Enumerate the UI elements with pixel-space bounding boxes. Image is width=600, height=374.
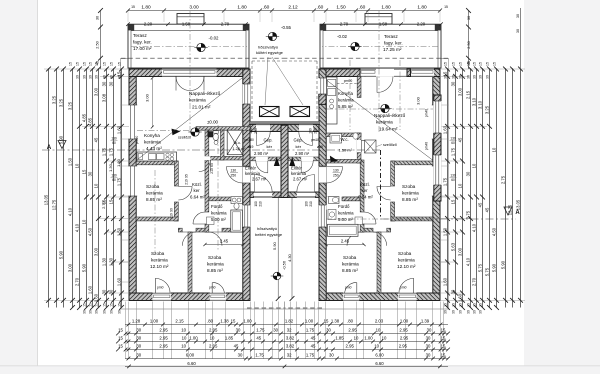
svg-text:2.45: 2.45 xyxy=(341,239,350,244)
svg-text:1.60: 1.60 xyxy=(443,277,448,286)
svg-text:19.64 m²: 19.64 m² xyxy=(379,127,398,132)
svg-text:15: 15 xyxy=(103,62,107,66)
svg-text:A: A xyxy=(47,144,52,151)
svg-text:Gép.: Gép. xyxy=(264,138,273,143)
svg-text:30: 30 xyxy=(118,310,122,314)
svg-text:210: 210 xyxy=(309,201,313,207)
interior wall: bedroom1/bedroom2 divider xyxy=(136,217,178,221)
svg-text:15: 15 xyxy=(118,327,123,332)
svg-text:kerámia: kerámia xyxy=(207,262,224,267)
svg-text:1.80: 1.80 xyxy=(237,4,247,10)
svg-text:3.00: 3.00 xyxy=(189,4,199,10)
svg-text:pm0: pm0 xyxy=(209,286,216,290)
svg-text:210: 210 xyxy=(314,128,318,134)
svg-text:30: 30 xyxy=(466,171,471,176)
svg-text:pm180: pm180 xyxy=(244,138,254,142)
svg-text:45: 45 xyxy=(485,207,490,212)
ventilation shaft with cross xyxy=(227,130,242,155)
svg-text:100: 100 xyxy=(254,201,258,207)
bottom band extension verticals xyxy=(125,302,127,359)
svg-text:1.00: 1.00 xyxy=(243,318,252,323)
svg-text:kerámia: kerámia xyxy=(245,171,261,176)
far top-right corner dims xyxy=(520,8,522,68)
svg-text:45: 45 xyxy=(311,343,316,348)
svg-text:30: 30 xyxy=(89,310,93,314)
svg-text:5.75: 5.75 xyxy=(485,267,490,276)
rear patio level marker xyxy=(273,272,281,280)
right unit W.c. room walls xyxy=(326,133,361,137)
terrace level marker right xyxy=(351,42,359,50)
svg-text:1.75: 1.75 xyxy=(102,147,107,156)
svg-text:3.00: 3.00 xyxy=(416,96,421,105)
svg-text:1.82: 1.82 xyxy=(285,318,294,323)
svg-text:30: 30 xyxy=(473,75,477,79)
svg-text:1.60: 1.60 xyxy=(117,125,122,134)
svg-text:15: 15 xyxy=(118,343,123,348)
svg-text:30: 30 xyxy=(102,289,107,294)
svg-text:5.90: 5.90 xyxy=(501,260,506,269)
svg-text:.60: .60 xyxy=(263,4,270,10)
svg-text:45: 45 xyxy=(478,202,483,207)
svg-text:30: 30 xyxy=(426,352,431,357)
svg-text:3.82: 3.82 xyxy=(286,343,295,348)
party wall full overdraw xyxy=(281,125,288,197)
bathroom fixtures: vanity with basins xyxy=(231,197,242,204)
svg-text:30: 30 xyxy=(109,81,114,86)
svg-text:15: 15 xyxy=(69,62,73,66)
svg-text:Szoba: Szoba xyxy=(402,184,416,189)
svg-text:2.70: 2.70 xyxy=(221,21,230,26)
right unit bathtub horizontal xyxy=(328,224,359,236)
svg-text:beltéri egysége: beltéri egysége xyxy=(255,232,283,237)
svg-text:kerámia: kerámia xyxy=(376,120,393,125)
svg-text:15: 15 xyxy=(486,62,490,66)
svg-text:12.75: 12.75 xyxy=(508,204,513,215)
interior wall: corridor/bathroom vertical xyxy=(205,160,209,212)
svg-text:4.10: 4.10 xyxy=(472,223,477,232)
bedroom3 garden door arc xyxy=(211,283,213,293)
door swing arrow at divider xyxy=(274,157,280,166)
svg-text:2.45: 2.45 xyxy=(220,239,229,244)
svg-text:30: 30 xyxy=(452,75,456,79)
porch dashed lines xyxy=(252,60,285,62)
svg-text:15: 15 xyxy=(109,199,114,204)
svg-text:pm0: pm0 xyxy=(157,286,164,290)
svg-text:30: 30 xyxy=(96,16,100,20)
bathroom fixtures: toilet xyxy=(234,203,239,209)
svg-text:30: 30 xyxy=(479,75,483,79)
svg-text:5.90: 5.90 xyxy=(59,135,64,144)
left unit kitchen counter with sink and hob xyxy=(137,152,177,161)
svg-text:hőszivattyú: hőszivattyú xyxy=(257,226,277,231)
terrace axis dash-dot xyxy=(131,46,247,48)
svg-text:2.95: 2.95 xyxy=(159,343,168,348)
sheet edge lines xyxy=(37,0,39,366)
svg-text:130: 130 xyxy=(111,137,117,141)
svg-text:5.85 m²: 5.85 m² xyxy=(338,104,353,109)
svg-text:ø19: ø19 xyxy=(317,145,323,149)
svg-text:.80: .80 xyxy=(207,318,214,323)
svg-text:32: 32 xyxy=(287,327,292,332)
svg-text:10: 10 xyxy=(354,335,359,340)
svg-text:5.90: 5.90 xyxy=(272,241,277,250)
svg-text:30: 30 xyxy=(103,75,107,79)
door opening: bottom wall bedroom3 xyxy=(210,293,226,301)
svg-text:10: 10 xyxy=(374,343,379,348)
svg-text:pm40: pm40 xyxy=(425,109,429,117)
svg-text:2.70: 2.70 xyxy=(75,277,80,286)
svg-text:1.30: 1.30 xyxy=(108,163,113,172)
svg-text:15: 15 xyxy=(451,199,456,204)
svg-text:15: 15 xyxy=(83,303,87,307)
svg-text:Szoba: Szoba xyxy=(151,251,165,256)
svg-text:15: 15 xyxy=(82,169,87,174)
svg-text:30: 30 xyxy=(273,327,278,332)
svg-text:15: 15 xyxy=(479,303,483,307)
svg-text:1.50: 1.50 xyxy=(117,227,122,236)
right W.c. shower tray xyxy=(330,134,342,144)
svg-text:10: 10 xyxy=(458,183,463,188)
svg-text:45: 45 xyxy=(256,335,261,340)
svg-text:1.60: 1.60 xyxy=(117,277,122,286)
svg-text:15: 15 xyxy=(103,303,107,307)
svg-text:3.25: 3.25 xyxy=(59,98,64,107)
svg-text:15: 15 xyxy=(479,62,483,66)
svg-text:kültéri egysége: kültéri egysége xyxy=(256,50,284,55)
right W.c. toilet xyxy=(353,133,358,139)
svg-text:pm90: pm90 xyxy=(135,136,139,145)
svg-text:60: 60 xyxy=(112,141,116,145)
svg-text:30: 30 xyxy=(83,75,87,79)
right kitchen pm90 dashed line xyxy=(337,83,357,85)
middle block bottom wall with entry door xyxy=(250,192,285,197)
entry-hall to utility door arc xyxy=(256,161,268,173)
outdoor unit leader lines xyxy=(265,57,268,105)
svg-text:10: 10 xyxy=(82,219,87,224)
svg-text:30: 30 xyxy=(426,343,431,348)
svg-text:.60: .60 xyxy=(317,4,324,10)
svg-text:kerámia: kerámia xyxy=(144,140,161,145)
svg-text:15: 15 xyxy=(459,303,463,307)
door opening: entry hall to unit corridor xyxy=(243,166,251,183)
svg-text:2.95: 2.95 xyxy=(159,327,168,332)
svg-text:4.85: 4.85 xyxy=(82,113,87,122)
svg-text:130: 130 xyxy=(111,174,117,178)
living room diagonal xyxy=(138,78,243,160)
svg-text:3.00: 3.00 xyxy=(68,263,73,272)
svg-text:2.95: 2.95 xyxy=(348,327,357,332)
svg-text:15: 15 xyxy=(493,62,497,66)
white drawing sheet xyxy=(38,0,524,366)
svg-text:1.60: 1.60 xyxy=(458,293,463,302)
svg-text:1.39: 1.39 xyxy=(421,318,430,323)
svg-text:2.75: 2.75 xyxy=(466,210,471,219)
svg-text:210: 210 xyxy=(259,201,263,207)
right ventilation shaft with cross xyxy=(365,140,377,153)
svg-text:5.90: 5.90 xyxy=(492,263,497,272)
svg-text:15: 15 xyxy=(118,335,123,340)
svg-text:15: 15 xyxy=(441,335,446,340)
right W.c. door arc (swings into hall) xyxy=(361,140,373,152)
svg-text:6.64 m²: 6.64 m² xyxy=(190,195,205,200)
svg-text:pm0: pm0 xyxy=(400,286,407,290)
svg-text:Terasz: Terasz xyxy=(133,33,147,38)
svg-text:8.85 m²: 8.85 m² xyxy=(146,197,162,202)
svg-text:1.38: 1.38 xyxy=(331,318,340,323)
svg-text:3.10: 3.10 xyxy=(472,97,477,106)
svg-text:5.63: 5.63 xyxy=(451,242,456,251)
svg-text:1.75: 1.75 xyxy=(256,327,265,332)
svg-text:±0.00: ±0.00 xyxy=(207,120,219,125)
svg-text:30: 30 xyxy=(76,75,80,79)
svg-text:Közl.: Közl. xyxy=(360,182,370,187)
svg-text:pm180: pm180 xyxy=(311,138,321,142)
left band top/bottom extension lines xyxy=(44,68,129,70)
svg-text:Szoba: Szoba xyxy=(398,251,412,256)
bedroom1 door arc xyxy=(178,187,192,201)
svg-text:Szoba: Szoba xyxy=(208,255,222,260)
svg-text:1.75: 1.75 xyxy=(451,147,456,156)
svg-text:2.67 m²: 2.67 m² xyxy=(252,177,267,182)
svg-text:kerámia: kerámia xyxy=(146,191,163,196)
svg-text:12.10 m²: 12.10 m² xyxy=(397,264,416,269)
svg-text:ker: ker xyxy=(362,188,369,193)
svg-text:-0.02: -0.02 xyxy=(208,36,219,41)
svg-text:10: 10 xyxy=(472,163,477,168)
svg-text:4.10: 4.10 xyxy=(75,223,80,232)
svg-text:130: 130 xyxy=(450,174,456,178)
chimney / skylight box on terrace xyxy=(177,14,204,25)
svg-text:15: 15 xyxy=(444,62,448,66)
svg-text:30: 30 xyxy=(136,335,141,340)
right unit right-wall windows overdraw xyxy=(434,95,441,201)
svg-text:szellőző: szellőző xyxy=(383,143,397,147)
svg-text:30: 30 xyxy=(329,352,334,357)
svg-text:30: 30 xyxy=(451,289,456,294)
svg-text:30: 30 xyxy=(89,75,93,79)
svg-text:30: 30 xyxy=(88,171,93,176)
svg-text:Gép.: Gép. xyxy=(294,138,303,143)
svg-text:2.12: 2.12 xyxy=(288,4,298,10)
svg-text:1.50: 1.50 xyxy=(182,21,191,26)
window opening: living room left wall xyxy=(128,105,138,139)
svg-text:kerámia: kerámia xyxy=(338,98,354,103)
right unit top wall overdraw (asymmetric layout) xyxy=(326,69,434,77)
svg-text:30: 30 xyxy=(459,310,463,314)
svg-text:4.85: 4.85 xyxy=(88,117,93,126)
svg-text:15: 15 xyxy=(95,303,99,307)
exterior wall: top of unit xyxy=(129,69,250,77)
svg-text:15: 15 xyxy=(444,303,448,307)
svg-text:6.00: 6.00 xyxy=(375,352,384,357)
window opening: porch-side wall xyxy=(243,84,251,104)
roof overhang outline (grey) xyxy=(121,59,285,310)
top-left mini vertical dimension x=100 xyxy=(100,11,102,70)
svg-text:kér: kér xyxy=(267,144,273,149)
svg-text:1.50: 1.50 xyxy=(379,21,388,26)
svg-text:Szoba: Szoba xyxy=(146,184,160,189)
svg-text:100: 100 xyxy=(305,201,309,207)
svg-text:15: 15 xyxy=(452,303,456,307)
svg-text:2.70: 2.70 xyxy=(340,21,349,26)
svg-text:30: 30 xyxy=(95,75,99,79)
section line A-A xyxy=(42,149,381,151)
svg-text:15: 15 xyxy=(89,303,93,307)
svg-text:kerámia: kerámia xyxy=(338,211,354,216)
utility room door arc from porch xyxy=(256,132,270,146)
svg-text:10: 10 xyxy=(75,163,80,168)
svg-text:1.50: 1.50 xyxy=(443,227,448,236)
svg-text:5.00 m²: 5.00 m² xyxy=(338,217,353,222)
svg-text:1.75: 1.75 xyxy=(255,352,264,357)
svg-text:Nappali-étkező: Nappali-étkező xyxy=(189,91,221,96)
black vent arrow near kitchen xyxy=(172,129,181,136)
svg-text:12.10 m²: 12.10 m² xyxy=(150,264,169,269)
svg-text:60: 60 xyxy=(112,178,116,182)
svg-text:pm0: pm0 xyxy=(345,286,352,290)
svg-text:Konyha: Konyha xyxy=(338,91,353,96)
svg-text:30: 30 xyxy=(516,14,520,18)
svg-text:30: 30 xyxy=(136,327,141,332)
interior wall: corridor/bath bottom xyxy=(178,228,182,232)
exterior wall: left side of unit xyxy=(129,69,136,301)
svg-text:30: 30 xyxy=(451,81,456,86)
top dimension line xyxy=(128,10,441,12)
svg-text:15: 15 xyxy=(473,62,477,66)
porch level marker -0.55 xyxy=(268,32,276,40)
svg-text:15: 15 xyxy=(118,62,122,66)
svg-text:30: 30 xyxy=(102,81,107,86)
svg-text:Szoba: Szoba xyxy=(343,255,357,260)
svg-text:ø19: ø19 xyxy=(248,145,254,149)
svg-text:250: 250 xyxy=(333,174,339,178)
terrace outline left unit xyxy=(128,24,249,68)
svg-text:30: 30 xyxy=(238,352,243,357)
svg-text:Fürdő: Fürdő xyxy=(211,204,223,209)
svg-text:1.50 m²: 1.50 m² xyxy=(339,148,353,153)
svg-text:W.c.: W.c. xyxy=(341,137,349,142)
svg-text:15: 15 xyxy=(95,62,99,66)
svg-text:130: 130 xyxy=(231,169,237,173)
svg-text:Előtér: Előtér xyxy=(291,166,303,171)
svg-text:2.95: 2.95 xyxy=(346,343,355,348)
svg-text:250: 250 xyxy=(231,174,237,178)
svg-text:1.75: 1.75 xyxy=(443,177,448,186)
svg-text:W.c.: W.c. xyxy=(234,140,242,145)
rear patio level lines xyxy=(277,198,279,299)
svg-text:kér: kér xyxy=(296,144,302,149)
bathroom fixtures: bathtub xyxy=(231,210,243,232)
svg-text:kerámia: kerámia xyxy=(291,171,307,176)
svg-text:2.90 m²: 2.90 m² xyxy=(295,151,310,156)
svg-text:3.00: 3.00 xyxy=(94,87,99,96)
right living room diagonal xyxy=(327,81,433,161)
svg-text:3.08: 3.08 xyxy=(102,93,107,102)
svg-text:5.90: 5.90 xyxy=(82,263,87,272)
dark cistern block at W.c. xyxy=(208,132,213,138)
svg-text:30: 30 xyxy=(95,310,99,314)
svg-text:4.30: 4.30 xyxy=(287,253,292,262)
svg-text:6.60: 6.60 xyxy=(187,361,196,366)
bedroom2 door arc xyxy=(182,232,196,246)
svg-text:15: 15 xyxy=(459,62,463,66)
svg-text:Előtér: Előtér xyxy=(245,166,257,171)
svg-text:kerámia: kerámia xyxy=(342,262,359,267)
interior wall: bathroom top xyxy=(209,197,243,201)
svg-text:45: 45 xyxy=(311,335,316,340)
svg-text:15: 15 xyxy=(441,327,446,332)
window opening: patio-side wall xyxy=(243,205,251,227)
svg-text:1.30: 1.30 xyxy=(109,257,114,266)
living room level marker xyxy=(191,128,199,136)
svg-text:2.90 m²: 2.90 m² xyxy=(254,151,269,156)
svg-text:30: 30 xyxy=(118,75,122,79)
svg-text:100: 100 xyxy=(249,128,253,134)
right unit kitchen counter along party wall xyxy=(327,77,338,124)
svg-text:kerámia: kerámia xyxy=(189,98,206,103)
svg-text:1.85: 1.85 xyxy=(225,335,234,340)
party wall (half) xyxy=(281,125,285,197)
svg-text:1.85: 1.85 xyxy=(335,335,344,340)
svg-text:130: 130 xyxy=(450,137,456,141)
svg-text:1.75: 1.75 xyxy=(109,147,114,156)
terrace level marker left xyxy=(197,43,205,51)
svg-text:130: 130 xyxy=(333,169,339,173)
exterior wall: bottom of unit xyxy=(129,293,250,301)
svg-text:1.80: 1.80 xyxy=(141,4,151,10)
svg-text:15: 15 xyxy=(89,62,93,66)
svg-text:30: 30 xyxy=(479,310,483,314)
svg-text:fagy. ker.: fagy. ker. xyxy=(384,41,403,46)
svg-text:5.75: 5.75 xyxy=(478,263,483,272)
svg-text:17.25 m²: 17.25 m² xyxy=(383,47,402,52)
svg-text:4.10: 4.10 xyxy=(68,207,73,216)
svg-text:.80: .80 xyxy=(347,318,354,323)
svg-text:Konyha: Konyha xyxy=(144,133,160,138)
svg-text:6.64 m²: 6.64 m² xyxy=(358,195,373,200)
svg-text:32: 32 xyxy=(287,352,292,357)
svg-text:15: 15 xyxy=(324,318,329,323)
svg-text:12.75: 12.75 xyxy=(52,199,57,210)
svg-text:3.25: 3.25 xyxy=(52,95,57,104)
svg-text:4.50: 4.50 xyxy=(88,227,93,236)
svg-text:2.95: 2.95 xyxy=(159,335,168,340)
right unit terrace door arc xyxy=(353,77,407,93)
svg-text:15: 15 xyxy=(444,5,448,9)
svg-text:2.15: 2.15 xyxy=(175,318,184,323)
mirrored copy of symmetric geometry xyxy=(285,8,526,359)
svg-text:10: 10 xyxy=(94,183,99,188)
svg-text:30: 30 xyxy=(136,352,141,357)
svg-text:21.01 m²: 21.01 m² xyxy=(192,105,211,110)
svg-text:4.50: 4.50 xyxy=(492,227,497,236)
right unit bathroom fixtures overdraw (asymmetric) xyxy=(327,196,343,232)
window+door opening: top wall (terrace door) xyxy=(162,69,217,77)
svg-text:4.10: 4.10 xyxy=(466,257,471,266)
svg-text:13.05: 13.05 xyxy=(44,194,49,205)
svg-text:1.00: 1.00 xyxy=(189,335,198,340)
svg-text:1.75: 1.75 xyxy=(306,327,315,332)
svg-text:pm90: pm90 xyxy=(344,79,353,83)
svg-text:30: 30 xyxy=(467,16,471,20)
svg-text:17.00 m²: 17.00 m² xyxy=(133,46,152,51)
left kitchen pm90 dashed line / horizontal axis xyxy=(137,129,243,131)
svg-text:3.00: 3.00 xyxy=(458,87,463,96)
svg-text:1.50: 1.50 xyxy=(68,157,73,166)
interior wall: bedroom2/bedroom3 divider xyxy=(188,232,192,293)
svg-text:30: 30 xyxy=(109,289,114,294)
svg-text:pm40: pm40 xyxy=(425,142,429,150)
